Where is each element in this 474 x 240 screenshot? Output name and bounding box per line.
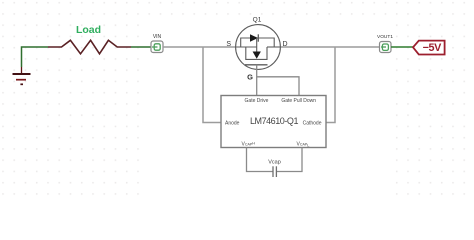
wire: gate branch to Gate Pull Down pin	[257, 77, 299, 96]
resistor R (Load)	[48, 40, 131, 54]
wire: ground vertical (green)	[22, 47, 49, 67]
svg-text:Load: Load	[76, 24, 101, 36]
capacitor Vcap	[273, 166, 276, 177]
op-amp U1 : IC LM74610-Q1 box	[221, 96, 326, 148]
svg-text:Gate Drive: Gate Drive	[245, 98, 269, 104]
drain segment	[267, 46, 280, 48]
arrow to channel	[256, 38, 258, 52]
svg-text:Cathode: Cathode	[303, 121, 322, 127]
wire: VcapL down to capacitor	[277, 148, 302, 172]
source segment	[236, 46, 257, 48]
svg-text:VOUT1: VOUT1	[377, 34, 393, 40]
wire: resistor to VIN port (green)	[131, 46, 151, 48]
svg-text:−5V: −5V	[423, 42, 443, 54]
ground	[13, 67, 31, 84]
svg-text:D: D	[283, 41, 288, 48]
svg-text:Gate Pull Down: Gate Pull Down	[281, 98, 316, 104]
body diode path	[241, 38, 275, 47]
channel U	[246, 47, 267, 59]
svg-text:G: G	[247, 73, 253, 82]
white canvas region (pasted schematic area)	[143, 16, 393, 201]
net port VIN	[151, 41, 163, 53]
svg-text:VIN: VIN	[153, 34, 162, 40]
wire: gate to Gate Drive pin	[256, 65, 258, 96]
svg-text:S: S	[226, 41, 231, 48]
wire: node junction down to Cathode	[326, 47, 335, 123]
power flag -5V	[413, 41, 445, 55]
transistor Q1	[236, 25, 281, 70]
wire: VIN to MOSFET source (grey)	[163, 46, 236, 48]
wire: MOSFET drain to VOUT1 (grey)	[280, 46, 379, 48]
net port VOUT1	[380, 42, 392, 53]
svg-text:LM74610-Q1: LM74610-Q1	[250, 116, 298, 126]
svg-text:Vcap: Vcap	[268, 160, 281, 166]
wire: VcapH down to capacitor	[247, 148, 273, 172]
wire: VOUT1 to -5V flag (green)	[391, 46, 414, 48]
svg-text:Q1: Q1	[253, 17, 262, 24]
svg-text:Anode: Anode	[225, 121, 240, 127]
gate bar	[245, 64, 268, 66]
wire: node junction down to Anode	[203, 47, 221, 123]
